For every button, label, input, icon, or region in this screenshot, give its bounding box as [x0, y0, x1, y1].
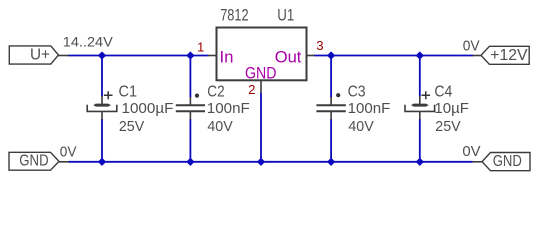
svg-text:1: 1 [197, 39, 204, 54]
svg-text:GND: GND [493, 153, 522, 170]
svg-text:40V: 40V [207, 118, 232, 135]
svg-text:100nF: 100nF [348, 100, 391, 117]
svg-text:GND: GND [245, 64, 276, 83]
svg-text:2: 2 [248, 82, 255, 97]
svg-text:U1: U1 [277, 6, 294, 25]
svg-text:C4: C4 [434, 83, 452, 100]
svg-text:In: In [220, 48, 234, 67]
svg-text:25V: 25V [119, 118, 144, 135]
svg-text:10µF: 10µF [434, 100, 469, 117]
svg-text:0V: 0V [463, 37, 480, 54]
svg-text:Out: Out [275, 48, 302, 67]
svg-text:1000µF: 1000µF [122, 100, 174, 117]
svg-text:GND: GND [19, 153, 48, 170]
svg-text:7812: 7812 [220, 6, 248, 25]
svg-text:0V: 0V [60, 144, 77, 161]
svg-text:+12V: +12V [490, 47, 528, 64]
svg-text:C1: C1 [119, 83, 138, 100]
svg-text:C2: C2 [207, 83, 224, 100]
svg-text:14..24V: 14..24V [63, 34, 113, 49]
svg-text:C3: C3 [348, 83, 366, 100]
svg-text:U+: U+ [30, 47, 50, 64]
svg-text:25V: 25V [435, 118, 460, 135]
svg-text:100nF: 100nF [207, 100, 250, 117]
svg-text:40V: 40V [348, 118, 373, 135]
svg-text:0V: 0V [462, 143, 480, 160]
svg-text:3: 3 [316, 38, 323, 53]
